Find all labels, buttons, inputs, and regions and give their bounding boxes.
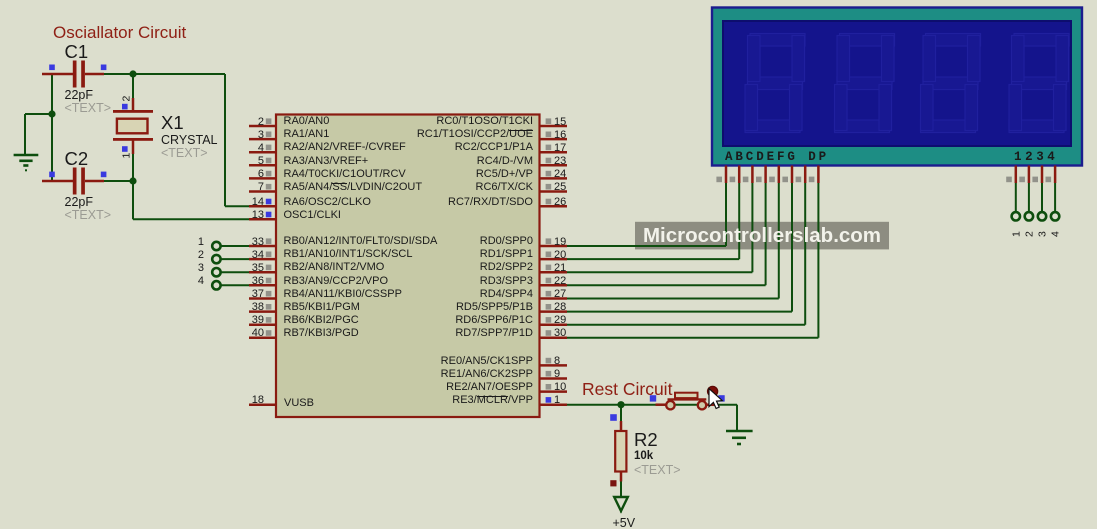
svg-text:4: 4 bbox=[1050, 231, 1062, 237]
svg-text:2: 2 bbox=[1023, 231, 1035, 237]
svg-text:2: 2 bbox=[121, 96, 133, 102]
svg-text:1: 1 bbox=[1010, 231, 1022, 237]
svg-text:1: 1 bbox=[121, 153, 133, 159]
svg-text:3: 3 bbox=[1037, 231, 1049, 237]
